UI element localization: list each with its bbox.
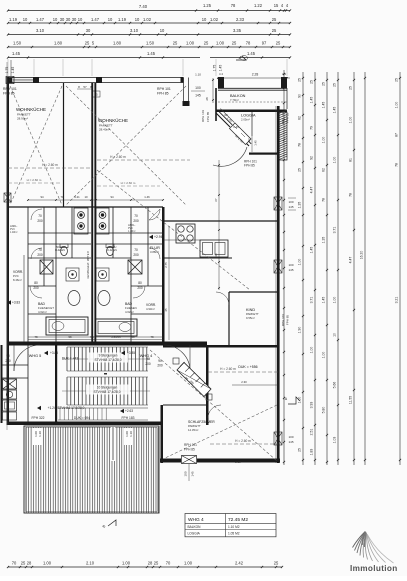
svg-text:4.62m²: 4.62m² xyxy=(125,310,134,314)
svg-text:1.00: 1.00 xyxy=(349,117,353,124)
svg-text:25: 25 xyxy=(272,17,277,22)
oval basin right xyxy=(98,291,110,306)
door arc bad left xyxy=(30,286,42,298)
balcony corner posts xyxy=(218,77,224,88)
right vertical dimension line x354 xyxy=(353,72,355,465)
svg-text:25: 25 xyxy=(232,41,237,46)
svg-text:28: 28 xyxy=(205,97,209,101)
interior small dim row y200 xyxy=(28,199,163,201)
door arc kind room xyxy=(216,292,229,305)
washing machine with cross xyxy=(3,379,17,389)
core line y286 xyxy=(28,285,56,287)
core bottom thick wall y343 xyxy=(8,342,207,346)
height dashed label right room xyxy=(97,185,160,187)
svg-text:RPH 101: RPH 101 xyxy=(281,314,285,327)
east window wall of WOHNKUECHE 2 xyxy=(183,78,185,107)
svg-text:78: 78 xyxy=(150,335,154,339)
wall between the two WOHNKUECHE rooms xyxy=(63,83,65,207)
svg-text:10: 10 xyxy=(84,195,88,199)
svg-text:1.02: 1.02 xyxy=(210,17,219,22)
svg-text:1.50: 1.50 xyxy=(13,41,22,46)
svg-text:90: 90 xyxy=(298,94,302,98)
left outer wall lower section xyxy=(1,345,3,423)
svg-text:1.35: 1.35 xyxy=(322,237,326,244)
stove right of spine xyxy=(96,208,109,234)
svg-text:78: 78 xyxy=(34,335,38,339)
svg-text:62: 62 xyxy=(322,168,326,172)
stair bottom wall xyxy=(8,422,163,426)
svg-text:3.88m²: 3.88m² xyxy=(150,250,159,254)
dashed diagonal living room xyxy=(97,170,250,290)
svg-text:30: 30 xyxy=(60,17,65,22)
svg-text:90: 90 xyxy=(146,357,150,361)
svg-text:1.48m²: 1.48m² xyxy=(10,231,18,234)
right vertical dimension line x338 xyxy=(337,72,339,465)
25 box label below top wall xyxy=(92,91,100,97)
dimension extension lines to building xyxy=(7,59,9,76)
svg-text:1.45: 1.45 xyxy=(333,107,337,114)
svg-text:25: 25 xyxy=(173,41,178,46)
washbasin round right xyxy=(96,268,109,281)
svg-text:10: 10 xyxy=(23,17,28,22)
svg-text:WOHNKÜCHE: WOHNKÜCHE xyxy=(98,117,128,123)
svg-text:200: 200 xyxy=(37,253,43,257)
svg-text:70: 70 xyxy=(166,561,171,566)
svg-text:WHG 5: WHG 5 xyxy=(29,354,41,358)
core divider x56 xyxy=(55,207,57,342)
svg-text:GESPIEGELT. MITTE 8: GESPIEGELT. MITTE 8 xyxy=(86,251,90,279)
svg-text:145: 145 xyxy=(191,471,195,476)
svg-text:1.35: 1.35 xyxy=(298,202,302,209)
door arc core upper-right xyxy=(149,209,160,220)
left exterior wall xyxy=(7,77,10,257)
right vertical dimension line x327 xyxy=(326,72,328,465)
svg-text:1.45: 1.45 xyxy=(247,51,256,56)
staircase walk line arrow xyxy=(62,358,150,360)
svg-text:1.00: 1.00 xyxy=(310,347,314,354)
svg-text:1.45: 1.45 xyxy=(254,140,258,146)
svg-text:1.50: 1.50 xyxy=(146,41,155,46)
dim 2.30 kind room xyxy=(232,384,278,386)
svg-text:2.33: 2.33 xyxy=(236,17,245,22)
stair side walls xyxy=(55,345,57,423)
svg-text:78: 78 xyxy=(298,143,302,147)
core line y244 xyxy=(28,243,91,245)
svg-text:30: 30 xyxy=(66,17,71,22)
kitchen counter edge xyxy=(164,239,200,241)
svg-text:78: 78 xyxy=(349,193,353,197)
svg-text:14.35m²: 14.35m² xyxy=(188,428,198,432)
svg-text:28: 28 xyxy=(27,561,32,566)
svg-text:78: 78 xyxy=(322,198,326,202)
svg-text:67: 67 xyxy=(214,198,218,202)
svg-text:1.00: 1.00 xyxy=(322,137,326,144)
svg-text:28.99m²: 28.99m² xyxy=(17,117,28,121)
svg-text:1.47: 1.47 xyxy=(91,17,100,22)
interior small dim column x219 living xyxy=(218,160,220,290)
svg-text:+2.96: +2.96 xyxy=(154,235,163,239)
svg-text:25: 25 xyxy=(85,41,90,46)
svg-text:4 4: 4 4 xyxy=(282,72,286,76)
area table xyxy=(185,514,276,537)
svg-text:H = 2.60 m: H = 2.60 m xyxy=(235,439,251,443)
schlafzimmer west wall xyxy=(161,405,164,463)
door arc bad right xyxy=(133,286,145,298)
svg-text:FPH 85: FPH 85 xyxy=(184,448,195,452)
terrace label right 100/110 xyxy=(124,428,133,445)
staircase middle rail xyxy=(104,373,107,375)
shaft cross box left xyxy=(40,260,53,274)
door arc schlafzimmer xyxy=(208,405,221,418)
svg-text:H = 2.60 m: H = 2.60 m xyxy=(42,163,58,167)
svg-text:+3.83: +3.83 xyxy=(12,301,20,305)
svg-text:25: 25 xyxy=(204,41,209,46)
svg-text:1.00: 1.00 xyxy=(43,561,52,566)
svg-text:94: 94 xyxy=(40,195,44,199)
core line y258 xyxy=(28,257,91,259)
svg-text:10: 10 xyxy=(333,333,337,337)
central spine wall xyxy=(91,83,93,345)
door arc core mid-left xyxy=(31,248,42,259)
svg-text:1.00: 1.00 xyxy=(184,561,193,566)
svg-text:100: 100 xyxy=(288,263,293,267)
svg-text:H = 2.60 m: H = 2.60 m xyxy=(220,367,236,371)
door swing arc into living room xyxy=(213,147,247,166)
stair text 10 Steigungen xyxy=(86,385,130,395)
kitchen stove WHG4 xyxy=(176,224,195,243)
svg-text:25: 25 xyxy=(154,561,159,566)
interior small dim row y339 xyxy=(28,339,163,341)
window cross on left wall xyxy=(4,193,11,202)
svg-text:40: 40 xyxy=(214,253,218,257)
svg-text:4.62m²: 4.62m² xyxy=(38,310,47,314)
svg-text:10: 10 xyxy=(202,17,207,22)
svg-text:5.66: 5.66 xyxy=(333,382,337,389)
svg-text:1.00: 1.00 xyxy=(122,561,131,566)
svg-text:1.90: 1.90 xyxy=(298,327,302,334)
core shelf line y233 xyxy=(28,232,91,234)
svg-text:71: 71 xyxy=(60,195,64,199)
svg-text:92: 92 xyxy=(247,138,251,142)
door arc WHG4 entrance xyxy=(164,345,190,371)
svg-text:2.38: 2.38 xyxy=(235,460,241,464)
svg-text:78: 78 xyxy=(395,163,399,167)
small appliance shelf xyxy=(3,412,17,420)
svg-text:FPH 85: FPH 85 xyxy=(286,113,290,124)
vertical line x252 loggia below xyxy=(251,112,253,152)
section marker arrow above balcony xyxy=(236,56,246,60)
svg-text:1.00: 1.00 xyxy=(298,397,302,404)
bathtub right xyxy=(95,319,137,336)
svg-text:62: 62 xyxy=(298,116,302,120)
svg-text:57: 57 xyxy=(83,85,87,89)
svg-text:70: 70 xyxy=(134,214,138,218)
svg-text:80: 80 xyxy=(138,281,142,285)
immolution logo swoosh fan xyxy=(353,532,394,564)
svg-text:100: 100 xyxy=(288,435,293,439)
svg-text:1.00: 1.00 xyxy=(322,352,326,359)
svg-text:7.40: 7.40 xyxy=(139,4,148,9)
svg-text:9 Steigungen: 9 Steigungen xyxy=(99,354,118,358)
svg-text:3.35: 3.35 xyxy=(233,28,242,33)
svg-text:H = 2.60 m: H = 2.60 m xyxy=(110,155,126,159)
svg-text:RPH 101: RPH 101 xyxy=(281,112,285,125)
svg-text:16.20: 16.20 xyxy=(360,251,364,260)
svg-text:200: 200 xyxy=(157,364,163,368)
window cross schlaf south wall xyxy=(181,455,197,464)
svg-text:1.00: 1.00 xyxy=(186,41,195,46)
window cross right wall y438 xyxy=(274,432,282,445)
svg-text:79: 79 xyxy=(310,126,314,130)
svg-text:9.55m²: 9.55m² xyxy=(246,316,255,320)
staircase lower landing flight xyxy=(58,407,148,409)
svg-text:4 4: 4 4 xyxy=(219,72,223,76)
svg-text:FPH 85: FPH 85 xyxy=(3,92,15,96)
svg-text:2.51: 2.51 xyxy=(310,429,314,436)
svg-text:25: 25 xyxy=(395,78,399,82)
hatched masonry pier right of loggia xyxy=(278,112,288,160)
dashed height line lower right xyxy=(208,371,278,373)
svg-text:145: 145 xyxy=(288,205,293,209)
svg-text:2.42: 2.42 xyxy=(235,561,244,566)
top exterior wall with window band xyxy=(8,77,184,79)
stove left of spine xyxy=(74,208,88,234)
core divider x131 xyxy=(130,207,132,342)
svg-text:8.46m²: 8.46m² xyxy=(13,278,22,282)
loggia LOGGIA walls xyxy=(215,88,217,121)
svg-text:1.47: 1.47 xyxy=(36,17,45,22)
svg-text:3.71: 3.71 xyxy=(310,297,314,304)
svg-text:1.10: 1.10 xyxy=(38,431,42,437)
left dimension leader line x7 xyxy=(6,62,8,430)
svg-text:DUK = 694: DUK = 694 xyxy=(74,416,90,420)
top dimension line row 4 xyxy=(8,46,290,48)
svg-text:RPH 101: RPH 101 xyxy=(201,109,205,122)
core top wall y207 xyxy=(8,206,163,208)
svg-text:1.45: 1.45 xyxy=(219,65,223,72)
terrace centre post line xyxy=(111,427,115,461)
svg-text:58: 58 xyxy=(131,335,135,339)
svg-text:1.46: 1.46 xyxy=(144,195,150,199)
svg-text:2.28: 2.28 xyxy=(252,73,259,77)
svg-text:70: 70 xyxy=(38,248,42,252)
core divider x28 xyxy=(27,207,29,342)
kitchen low wall y258 xyxy=(164,257,232,259)
KIND room wall y292 xyxy=(229,291,278,293)
core divider x44 xyxy=(43,207,45,286)
svg-text:BALKON: BALKON xyxy=(188,525,202,529)
height dashed label H 2.60 m wohnkueche1 xyxy=(8,182,60,184)
svg-text:62: 62 xyxy=(224,113,228,117)
svg-text:1.80: 1.80 xyxy=(113,41,122,46)
svg-text:RPH 101: RPH 101 xyxy=(184,443,197,447)
svg-text:1.45: 1.45 xyxy=(322,102,326,109)
svg-text:Immolution: Immolution xyxy=(350,564,398,573)
window cross right wall y200 xyxy=(274,197,282,210)
svg-text:200: 200 xyxy=(133,219,139,223)
svg-text:+3.85: +3.85 xyxy=(127,351,135,355)
svg-text:5.65: 5.65 xyxy=(90,335,96,339)
svg-text:3.93: 3.93 xyxy=(310,402,314,409)
svg-text:FLIESEN: FLIESEN xyxy=(55,249,65,252)
top dimension line row 3 xyxy=(8,34,290,36)
svg-text:2.30: 2.30 xyxy=(241,380,247,384)
svg-text:DUK = +556: DUK = +556 xyxy=(238,365,257,369)
svg-text:25: 25 xyxy=(298,78,302,82)
bottom dimension line xyxy=(8,566,282,568)
svg-text:1.25: 1.25 xyxy=(203,3,212,8)
dashed ceiling diagonal room2 xyxy=(66,86,186,205)
svg-text:70: 70 xyxy=(134,248,138,252)
svg-text:1.80: 1.80 xyxy=(54,41,63,46)
svg-text:WOHNKÜCHE: WOHNKÜCHE xyxy=(16,106,46,112)
svg-text:58: 58 xyxy=(68,335,72,339)
svg-text:25: 25 xyxy=(333,83,337,87)
staircase lower flight steps xyxy=(66,377,68,405)
balcony dimension 2.28 above xyxy=(217,77,290,79)
svg-text:78: 78 xyxy=(231,3,236,8)
svg-text:4.47: 4.47 xyxy=(349,257,353,264)
appliance with circle xyxy=(3,390,17,399)
svg-text:80: 80 xyxy=(34,281,38,285)
svg-text:1.10: 1.10 xyxy=(129,431,133,437)
core divider x148 xyxy=(147,207,149,286)
wall segment after chamfer xyxy=(249,153,277,155)
svg-text:STV:H48 17,4/28,0: STV:H48 17,4/28,0 xyxy=(94,390,121,394)
svg-text:145: 145 xyxy=(288,268,293,272)
svg-text:30: 30 xyxy=(86,28,91,33)
svg-text:10: 10 xyxy=(108,17,113,22)
svg-text:7.79m²: 7.79m² xyxy=(230,98,239,102)
svg-text:1.00: 1.00 xyxy=(395,102,399,109)
svg-text:FPH 85: FPH 85 xyxy=(206,111,210,122)
svg-text:1.00: 1.00 xyxy=(216,41,225,46)
appliance box lower xyxy=(3,400,17,411)
svg-text:FPH 85: FPH 85 xyxy=(157,92,169,96)
right vertical dimension line chain x284 xyxy=(283,70,285,465)
window cross right wall y265 xyxy=(274,260,282,273)
svg-text:1.45: 1.45 xyxy=(147,51,156,56)
section marker B below terrace xyxy=(108,520,116,526)
svg-text:25: 25 xyxy=(310,80,314,84)
svg-text:1.10: 1.10 xyxy=(195,73,201,77)
kitchen sink WHG4 xyxy=(200,240,228,257)
svg-text:FPH 183: FPH 183 xyxy=(121,416,134,420)
svg-text:3.21: 3.21 xyxy=(74,195,80,199)
wc left xyxy=(61,246,68,255)
svg-text:1.00: 1.00 xyxy=(333,157,337,164)
top dimension line row 2 xyxy=(8,22,290,24)
svg-text:200: 200 xyxy=(137,286,143,290)
dashed diagonal schlafzimmer xyxy=(150,350,277,461)
svg-text:DUK = +43: DUK = +43 xyxy=(62,357,78,361)
shaft cross box right xyxy=(128,260,142,274)
svg-text:25: 25 xyxy=(21,561,26,566)
chamfered corner wall with diagonal door xyxy=(216,113,230,127)
svg-text:1.45: 1.45 xyxy=(11,67,15,74)
KIND room wall x229 xyxy=(228,292,230,345)
svg-text:2.10: 2.10 xyxy=(86,561,95,566)
right vertical dimension line x365 xyxy=(364,72,366,465)
svg-text:LOGGIA: LOGGIA xyxy=(188,532,201,536)
svg-text:92: 92 xyxy=(310,156,314,160)
svg-text:1.45: 1.45 xyxy=(310,97,314,104)
svg-text:5.80: 5.80 xyxy=(322,407,326,414)
schlafzimmer bottom wall xyxy=(160,459,280,463)
svg-text:1.00: 1.00 xyxy=(333,297,337,304)
terrace label left 100/110 xyxy=(33,428,42,445)
svg-text:10: 10 xyxy=(53,17,58,22)
balcony floor dashed line xyxy=(218,101,287,103)
svg-text:72.45 M2: 72.45 M2 xyxy=(228,517,248,523)
diagonal shaft element lower xyxy=(177,362,211,397)
interior dim column x169 xyxy=(168,226,170,340)
svg-text:200: 200 xyxy=(33,286,39,290)
door arc core upper-left xyxy=(31,209,42,220)
svg-text:45: 45 xyxy=(164,308,168,312)
svg-text:3.21: 3.21 xyxy=(395,297,399,304)
door arc core mid-right xyxy=(149,248,160,259)
svg-text:94: 94 xyxy=(110,195,114,199)
svg-text:81: 81 xyxy=(349,158,353,162)
svg-text:H = 2.60 m: H = 2.60 m xyxy=(27,178,42,182)
wall y348 below KIND xyxy=(163,345,278,348)
window cross symbol top-left xyxy=(6,77,14,84)
balcony front railing xyxy=(218,87,287,89)
svg-text:+3.85: +3.85 xyxy=(50,351,58,355)
svg-text:1.00: 1.00 xyxy=(298,259,302,266)
svg-text:FPH 85: FPH 85 xyxy=(244,164,255,168)
svg-text:25: 25 xyxy=(349,86,353,90)
svg-text:FLIESEN: FLIESEN xyxy=(107,249,117,252)
svg-text:H = 2.60 m: H = 2.60 m xyxy=(121,181,136,185)
svg-text:200: 200 xyxy=(37,219,43,223)
washbasin round left xyxy=(66,268,79,281)
bath interior line y337 xyxy=(28,336,91,338)
svg-text:10 Steigungen: 10 Steigungen xyxy=(97,386,118,390)
svg-text:15: 15 xyxy=(274,3,279,8)
svg-text:200: 200 xyxy=(133,253,139,257)
door arc WHG5 entrance xyxy=(14,345,40,371)
svg-text:STV:H48 17,4/28,0: STV:H48 17,4/28,0 xyxy=(95,358,122,362)
svg-text:25: 25 xyxy=(274,561,279,566)
svg-text:4.93m²: 4.93m² xyxy=(146,307,155,311)
svg-text:10: 10 xyxy=(78,17,83,22)
top dimension line row 1 (7.40 overall) xyxy=(8,10,290,12)
svg-text:87: 87 xyxy=(395,133,399,137)
core divider x113 xyxy=(112,207,114,258)
section arrow A right xyxy=(288,397,300,404)
svg-text:90: 90 xyxy=(158,359,162,363)
terrace decking hatched area xyxy=(24,426,159,513)
core line y314 xyxy=(28,313,56,315)
vertical wall x207 stair to schlaf zone xyxy=(206,345,209,425)
dashed ceiling diagonal room1 xyxy=(10,86,62,205)
right exterior wall xyxy=(277,106,280,463)
svg-text:2.75: 2.75 xyxy=(164,262,168,268)
svg-text:3.71: 3.71 xyxy=(333,227,337,234)
svg-text:200: 200 xyxy=(5,359,11,363)
svg-text:1.45: 1.45 xyxy=(322,297,326,304)
schlafzimmer top wall y405 xyxy=(163,404,207,406)
svg-text:97: 97 xyxy=(262,41,267,46)
staircase upper flight steps xyxy=(66,347,68,371)
svg-text:1.03: 1.03 xyxy=(333,437,337,444)
bathtub left xyxy=(46,317,88,335)
svg-text:70: 70 xyxy=(12,561,17,566)
oval basin left xyxy=(68,291,80,306)
svg-text:90: 90 xyxy=(6,354,10,358)
